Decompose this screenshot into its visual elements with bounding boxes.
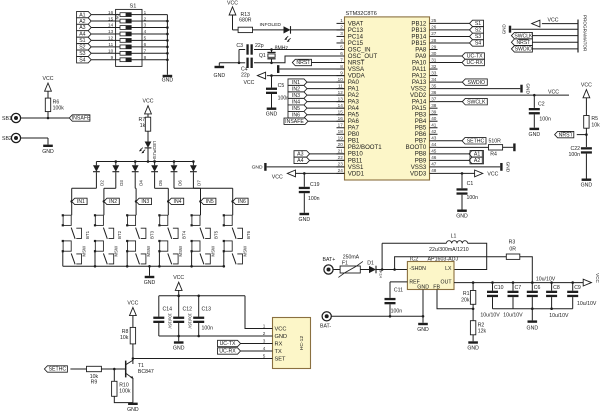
svg-text:VCC: VCC — [43, 76, 54, 82]
tag UC-TX (hc12) — [218, 340, 241, 346]
tag IN3 (mcu) — [288, 92, 307, 98]
svg-text:HC-12: HC-12 — [299, 336, 305, 351]
svg-text:GND: GND — [214, 73, 226, 79]
svg-text:IN4: IN4 — [174, 199, 182, 205]
svg-text:BT2: BT2 — [117, 230, 122, 239]
capacitor C13 100n — [197, 295, 200, 298]
tag IN5 (mcu) — [288, 105, 307, 111]
svg-text:UC-TX: UC-TX — [220, 341, 236, 347]
svg-text:GND: GND — [527, 326, 539, 332]
svg-text:15: 15 — [108, 16, 114, 21]
svg-text:29: 29 — [431, 44, 437, 49]
svg-text:GND: GND — [42, 149, 54, 155]
svg-text:10u/10V: 10u/10V — [480, 313, 500, 319]
svg-text:S4: S4 — [475, 41, 481, 47]
tag S1 (mcu) — [438, 22, 470, 24]
svg-text:OUT: OUT — [441, 280, 453, 286]
svg-text:100n: 100n — [202, 325, 214, 331]
tag SETHC (mcu) — [438, 140, 463, 142]
svg-text:GND: GND — [581, 183, 593, 189]
svg-text:13: 13 — [338, 96, 344, 101]
mcu pin 19 PB1 — [337, 140, 345, 142]
svg-text:42: 42 — [431, 129, 437, 134]
mcu pin 30 PA9 — [430, 55, 438, 57]
svg-text:5: 5 — [144, 36, 147, 41]
ground switch bus — [148, 265, 151, 268]
svg-text:GND: GND — [144, 280, 156, 286]
svg-text:GND: GND — [127, 407, 139, 413]
svg-text:A1: A1 — [79, 12, 85, 18]
svg-text:GND: GND — [266, 112, 278, 118]
svg-text:SETHC: SETHC — [49, 367, 67, 373]
svg-text:VCC: VCC — [487, 171, 498, 177]
svg-text:MSW: MSW — [146, 245, 151, 257]
wire D2 to channel 1 — [95, 172, 97, 188]
mcu pin 2 PC13 — [337, 29, 345, 31]
capacitor C4 22p — [239, 62, 245, 64]
svg-text:MSW: MSW — [243, 245, 248, 257]
svg-text:510R: 510R — [489, 138, 502, 144]
svg-text:GND: GND — [502, 23, 507, 34]
wire -SHDN loop to R3 — [395, 257, 507, 270]
svg-text:GND: GND — [529, 132, 541, 138]
mcu U1 STM32C8T6 body — [345, 17, 430, 180]
resistor R9 10k — [87, 366, 102, 371]
svg-text:12k: 12k — [478, 329, 487, 335]
svg-text:NRST: NRST — [559, 132, 574, 138]
pad SB1 — [11, 113, 20, 122]
wire hc12 vcc rail — [159, 295, 245, 297]
wire channel 5 to bottom bus — [191, 251, 193, 266]
mcu pin 31 PA10 — [430, 62, 438, 64]
svg-text:31: 31 — [431, 57, 437, 62]
svg-text:D1: D1 — [367, 261, 374, 267]
wire D5 to channel 4 — [154, 172, 156, 188]
svg-text:A3: A3 — [79, 25, 85, 31]
svg-text:VCC: VCC — [272, 174, 283, 180]
resistor R8 10k — [130, 307, 137, 315]
diode D6 — [173, 160, 176, 163]
mcu pin 25 PB12 — [430, 22, 438, 24]
tag UC-TX (mcu) — [438, 55, 463, 57]
mcu pin 45 PB8 — [430, 153, 438, 155]
wire channel 3 to bottom bus — [126, 251, 128, 266]
svg-text:S3: S3 — [79, 51, 85, 57]
mcu pin 21 PB10 — [337, 153, 345, 155]
power VCC hc12 rail — [175, 282, 182, 290]
mcu pin 40 PB4 — [430, 120, 438, 122]
mcu pin 18 PB0 — [337, 133, 345, 135]
tag SWCLK (programator) — [532, 35, 578, 37]
svg-text:GND: GND — [299, 217, 311, 223]
wire dip right — [142, 39, 167, 41]
svg-text:S1: S1 — [475, 21, 481, 27]
ground output caps — [531, 309, 533, 321]
tag UC-RX (hc12) — [218, 348, 241, 354]
tag IN1 (channel) — [72, 198, 87, 204]
svg-text:35: 35 — [431, 83, 437, 88]
wire FB to divider — [437, 290, 473, 309]
svg-text:43: 43 — [431, 136, 437, 141]
switch S1 element 1 — [116, 14, 120, 16]
svg-text:SB2: SB2 — [2, 136, 12, 142]
svg-text:S1: S1 — [79, 38, 85, 44]
svg-text:SWCLK: SWCLK — [467, 99, 486, 105]
ground T1 — [128, 403, 138, 405]
mcu pin 14 PA4 — [337, 107, 345, 109]
switch MSW1 — [63, 241, 71, 251]
svg-text:IN5: IN5 — [206, 199, 214, 205]
svg-text:7: 7 — [144, 49, 147, 54]
svg-text:1: 1 — [263, 323, 266, 328]
svg-text:46: 46 — [431, 155, 437, 160]
wire dip right — [142, 46, 167, 48]
node IN4 — [167, 200, 170, 203]
svg-text:IN2: IN2 — [292, 86, 300, 92]
node IN5 — [199, 200, 202, 203]
svg-text:GND: GND — [417, 327, 429, 333]
svg-text:BAT-: BAT- — [320, 324, 331, 330]
mcu pin 6 OSC_OUT — [337, 55, 345, 57]
svg-text:8MHz: 8MHz — [275, 45, 289, 51]
switch BT2 — [95, 215, 103, 225]
svg-text:100n: 100n — [278, 96, 290, 102]
switch MSW2 — [95, 241, 103, 251]
switch MSW6 — [224, 241, 232, 251]
svg-text:C11: C11 — [394, 288, 403, 294]
ground VSS2 pin35 — [438, 88, 521, 90]
svg-text:IN1: IN1 — [292, 80, 300, 86]
mcu pin 41 PB5 — [430, 127, 438, 129]
wire channel 2 to bottom bus — [94, 251, 96, 266]
diode D4 — [134, 160, 137, 163]
svg-text:16: 16 — [108, 10, 114, 15]
pad BAT+ — [324, 265, 333, 274]
tag INSAFE (SB1) — [69, 115, 90, 121]
wire L1 to LX — [454, 243, 487, 269]
svg-text:R1: R1 — [463, 291, 470, 297]
svg-text:10u/10V: 10u/10V — [577, 301, 597, 307]
resistor R4 510R (BOOT0) — [438, 146, 489, 148]
svg-text:GND: GND — [162, 78, 174, 84]
svg-text:4: 4 — [263, 346, 266, 351]
svg-text:SETHC: SETHC — [467, 138, 485, 144]
mcu pin 15 PA5 — [337, 114, 345, 116]
mcu pin 11 PA1 — [337, 88, 345, 90]
svg-text:100n: 100n — [391, 308, 403, 314]
svg-text:C1: C1 — [467, 181, 474, 187]
svg-text:C13: C13 — [202, 306, 212, 312]
svg-text:MSW: MSW — [114, 245, 119, 257]
mcu pin 8 VSSA — [337, 68, 345, 70]
svg-text:TX: TX — [275, 349, 282, 355]
svg-text:27: 27 — [431, 31, 437, 36]
mcu pin 35 VSS2 — [430, 88, 438, 90]
tag IN3 (channel) — [136, 198, 151, 204]
svg-text:S2: S2 — [79, 45, 85, 51]
switch S1 element 3 — [116, 27, 120, 29]
svg-text:5: 5 — [263, 353, 266, 358]
svg-text:7: 7 — [340, 57, 343, 62]
wire hc12 gnd pin — [267, 335, 273, 337]
svg-text:C3: C3 — [236, 43, 243, 49]
svg-text:A3: A3 — [297, 152, 303, 158]
svg-text:1: 1 — [144, 10, 147, 15]
svg-text:S4: S4 — [79, 57, 85, 63]
resistor R6 100k pullup — [45, 83, 52, 91]
tag A1 (mcu) — [438, 153, 469, 155]
mcu pin 47 VSS3 — [430, 166, 438, 168]
svg-text:-SHDN: -SHDN — [409, 266, 426, 272]
tag IN2 (mcu) — [288, 85, 307, 91]
svg-text:INFOLED: INFOLED — [260, 22, 282, 28]
switch MSW5 — [192, 241, 200, 251]
ground oscillator — [219, 62, 239, 64]
mcu pin 4 PC15 — [337, 42, 345, 44]
mcu pin 44 BOOT0 — [430, 146, 438, 148]
diode D3 — [115, 160, 118, 163]
wire osc_out — [272, 56, 345, 63]
wire dip right — [142, 59, 167, 61]
node IN6 — [231, 200, 234, 203]
svg-text:A4: A4 — [79, 32, 85, 38]
svg-text:10u/16V: 10u/16V — [168, 313, 173, 329]
svg-text:38: 38 — [431, 103, 437, 108]
mcu pin 34 PA13 — [430, 81, 438, 83]
svg-text:GND: GND — [275, 334, 288, 340]
tag SWCLK (mcu) — [438, 101, 463, 103]
svg-text:INSAFE: INSAFE — [72, 116, 91, 122]
svg-text:D5: D5 — [158, 180, 163, 186]
svg-text:47: 47 — [431, 162, 437, 167]
wire D6 to channel 5 — [173, 172, 175, 188]
hc12 pin 3 RX — [267, 343, 273, 345]
tag S4 (mcu) — [438, 42, 470, 44]
svg-text:C2: C2 — [538, 101, 545, 107]
svg-text:8: 8 — [340, 64, 343, 69]
svg-text:10k: 10k — [591, 122, 600, 128]
svg-text:C10: C10 — [494, 285, 504, 291]
svg-text:C22: C22 — [570, 146, 580, 152]
svg-text:23: 23 — [338, 162, 344, 167]
svg-text:S1: S1 — [130, 3, 137, 9]
svg-text:VCC: VCC — [227, 1, 238, 7]
svg-text:26: 26 — [431, 25, 437, 30]
led INFOLED — [253, 29, 284, 31]
mcu pin 17 PA7 — [337, 127, 345, 129]
svg-text:3: 3 — [263, 338, 266, 343]
switch S1 element 2 — [116, 20, 120, 22]
svg-text:C14: C14 — [163, 306, 173, 312]
node IN1 — [70, 200, 73, 203]
capacitor C9 10u/10V — [571, 281, 574, 284]
switch MSW4 — [160, 241, 168, 251]
svg-text:NRST: NRST — [516, 40, 530, 46]
diode D5 — [153, 160, 156, 163]
svg-text:40: 40 — [431, 116, 437, 121]
svg-text:6: 6 — [340, 51, 343, 56]
switch S1 element 5 — [116, 39, 120, 41]
ground SB2 — [43, 145, 53, 147]
switch S1 element 6 — [116, 46, 120, 48]
switch S1 element 8 — [116, 59, 120, 61]
svg-text:SET: SET — [275, 356, 287, 362]
tag IN6 (channel) — [233, 198, 248, 204]
mcu pin 20 PB2/BOOT1 — [337, 146, 345, 148]
svg-text:IN6: IN6 — [238, 199, 246, 205]
svg-text:IN6: IN6 — [292, 112, 300, 118]
svg-text:A4: A4 — [297, 158, 303, 164]
svg-text:18: 18 — [338, 129, 344, 134]
svg-text:AP1603-ADJ: AP1603-ADJ — [428, 256, 459, 262]
svg-text:22p: 22p — [241, 72, 250, 78]
svg-text:D3: D3 — [119, 180, 124, 186]
svg-text:IN3: IN3 — [292, 93, 300, 99]
svg-text:9: 9 — [340, 70, 343, 75]
svg-text:1k: 1k — [140, 123, 146, 129]
power VCC output arrow — [583, 279, 591, 286]
mcu pin 10 PA0 — [337, 81, 345, 83]
svg-text:UC-RX: UC-RX — [466, 60, 483, 66]
svg-text:BT5: BT5 — [214, 230, 219, 239]
wire D1 to IC2 and L1 — [376, 269, 407, 271]
svg-text:8: 8 — [144, 55, 147, 60]
svg-text:100k: 100k — [119, 389, 131, 395]
svg-text:10u/10V: 10u/10V — [549, 313, 569, 319]
svg-text:C9: C9 — [574, 285, 581, 291]
svg-text:VCC: VCC — [595, 273, 600, 283]
svg-text:SWDIO: SWDIO — [515, 47, 532, 53]
tag IN5 (channel) — [201, 198, 216, 204]
svg-text:4: 4 — [144, 29, 147, 34]
capacitor C3 22p — [246, 44, 248, 54]
wire dip right — [142, 52, 167, 54]
mcu pin 13 PA3 — [337, 101, 345, 103]
svg-text:BT6: BT6 — [246, 230, 251, 239]
svg-text:GND: GND — [467, 346, 479, 352]
switch BT5 — [192, 215, 200, 225]
tag SWDIO (programator) — [532, 48, 578, 50]
svg-text:10u/16V: 10u/16V — [188, 313, 193, 329]
switch BT4 — [160, 215, 168, 225]
switch BT3 — [128, 215, 136, 225]
svg-text:C8: C8 — [553, 285, 560, 291]
wire channel 6 to bottom bus — [223, 251, 225, 266]
svg-text:6: 6 — [144, 42, 147, 47]
tag SETHC (T1) — [44, 366, 67, 372]
diode D2 — [95, 162, 97, 166]
regulator IC2 AP1603-ADJ — [407, 262, 454, 290]
svg-text:680R: 680R — [239, 18, 252, 24]
switch S1 element 4 — [116, 33, 120, 35]
svg-text:5: 5 — [340, 44, 343, 49]
svg-text:24: 24 — [338, 168, 344, 173]
wire dip right — [142, 14, 167, 16]
svg-text:33: 33 — [431, 70, 437, 75]
mcu pin 27 PB14 — [430, 35, 438, 37]
svg-text:R5: R5 — [591, 116, 598, 122]
node IN2 — [103, 200, 106, 203]
svg-text:R3: R3 — [509, 240, 516, 246]
wire hc12 set to T1 — [133, 358, 273, 360]
wire channel 4 to bottom bus — [158, 251, 160, 266]
ground R2 — [468, 341, 478, 343]
wire diode top bus — [96, 161, 193, 163]
svg-text:12: 12 — [108, 36, 114, 41]
wire output caps bottom rail — [493, 308, 573, 310]
svg-text:22u/300mA/1210: 22u/300mA/1210 — [429, 247, 469, 253]
mcu pin 32 PA11 — [430, 68, 438, 70]
capacitor C22 100n — [581, 147, 592, 149]
mcu pin 16 PA6 — [337, 120, 345, 122]
svg-text:11: 11 — [108, 42, 113, 47]
svg-text:21: 21 — [338, 149, 344, 154]
wire osc left vertical — [238, 49, 240, 62]
svg-text:IC2: IC2 — [410, 256, 418, 262]
svg-text:C12: C12 — [183, 306, 193, 312]
mcu pin 37 PA14 — [430, 101, 438, 103]
wire infoled to pin2 — [291, 29, 345, 31]
svg-text:A2: A2 — [474, 158, 480, 164]
svg-text:GND: GND — [173, 346, 185, 352]
svg-text:C6: C6 — [534, 285, 541, 291]
wire SB2 to gnd — [21, 137, 49, 139]
svg-text:14: 14 — [108, 23, 114, 28]
svg-text:C5: C5 — [278, 83, 285, 89]
tag NRST (pullup) — [555, 131, 574, 137]
svg-text:100k: 100k — [53, 106, 65, 112]
resistor R10 100k — [113, 369, 115, 381]
svg-text:37: 37 — [431, 96, 437, 101]
switch MSW3 — [128, 241, 136, 251]
svg-text:R2: R2 — [478, 322, 485, 328]
svg-text:VDD1: VDD1 — [348, 170, 365, 177]
svg-text:LX: LX — [445, 266, 452, 272]
svg-text:INSAFE: INSAFE — [285, 119, 304, 125]
svg-text:100n: 100n — [308, 196, 320, 202]
wire caps bottom rail to hc12 gnd — [159, 335, 273, 337]
ground VSS3 pin47 — [438, 166, 501, 168]
svg-text:VDD3: VDD3 — [410, 170, 427, 177]
svg-text:GND: GND — [505, 162, 511, 173]
mcu pin 5 OSC_IN — [337, 48, 345, 50]
svg-text:2: 2 — [340, 25, 343, 30]
svg-text:GND: GND — [525, 83, 531, 94]
tag NRST (pin7) — [312, 62, 345, 64]
svg-text:MSW: MSW — [210, 245, 215, 257]
ground S1 — [163, 75, 173, 77]
svg-text:PROGRAMATOR: PROGRAMATOR — [583, 15, 588, 52]
wire SB1 to node — [21, 117, 70, 119]
svg-text:C7: C7 — [515, 285, 522, 291]
svg-text:Q1: Q1 — [259, 53, 266, 59]
svg-text:3: 3 — [144, 23, 147, 28]
tag A4 (mcu) — [294, 157, 310, 163]
svg-text:R9: R9 — [91, 379, 98, 385]
wire D7 to channel 6 — [192, 172, 194, 188]
svg-text:36: 36 — [431, 90, 437, 95]
svg-text:10: 10 — [108, 49, 114, 54]
svg-text:13: 13 — [108, 29, 114, 34]
svg-text:2: 2 — [144, 16, 147, 21]
resistor R1 20k — [454, 282, 583, 284]
mcu pin 3 PC14 — [337, 35, 345, 37]
capacitor C6 10u/10V — [531, 281, 534, 284]
mcu pin 46 PB9 — [430, 159, 438, 161]
connector PROGRAMATOR — [577, 20, 579, 53]
svg-text:41: 41 — [431, 123, 437, 128]
svg-text:3: 3 — [340, 31, 343, 36]
